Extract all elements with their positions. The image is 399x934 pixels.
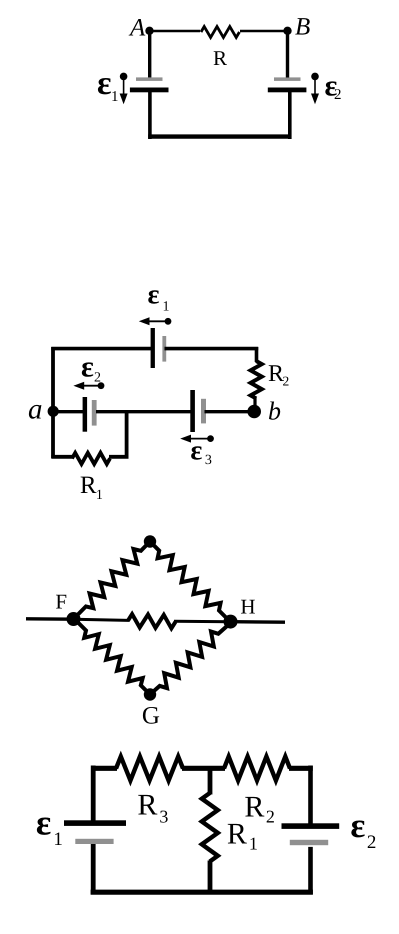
- top wire left corner to R3: [93, 766, 117, 771]
- svg-text:A: A: [128, 15, 146, 42]
- resistor R: [201, 27, 239, 38]
- battery E1 gray plate: [162, 336, 166, 362]
- label B: [295, 14, 310, 41]
- node G: [144, 688, 156, 700]
- wire mid resistor to H: [174, 620, 231, 623]
- current arrow 2 (down): [311, 79, 319, 104]
- label F: [55, 590, 67, 614]
- label epsilon2: [81, 351, 101, 386]
- svg-text:2: 2: [266, 807, 275, 827]
- label R: [213, 46, 227, 70]
- top wire right segment: [165, 347, 259, 351]
- wire resistor to B: [240, 30, 288, 33]
- battery E1 black plate: [130, 88, 169, 93]
- label epsilon2: [324, 70, 341, 104]
- resistor R1 vertical: [202, 793, 218, 862]
- svg-text:3: 3: [205, 453, 212, 468]
- battery E3 gray plate: [201, 399, 206, 424]
- middle junction stub: [208, 766, 213, 795]
- label a: [28, 394, 43, 426]
- left wire down: [51, 347, 55, 458]
- label epsilon1: [36, 803, 63, 851]
- node A: [145, 27, 153, 35]
- battery E2 gray plate: [290, 840, 328, 845]
- label R3: [137, 789, 168, 827]
- resistor R2: [224, 757, 290, 781]
- middle wire E3 to b: [205, 410, 255, 413]
- battery E2 black plate: [268, 88, 307, 93]
- top wire left segment: [51, 347, 152, 351]
- label R2: [244, 791, 275, 827]
- current arrow 2 (left): [73, 382, 104, 390]
- lower branch riser: [125, 411, 129, 459]
- battery E2 black plate: [282, 823, 340, 829]
- current arrow 3 (left): [180, 435, 214, 443]
- svg-text:1: 1: [162, 300, 169, 315]
- wire F to mid resistor: [74, 619, 130, 620]
- resistor R2: [251, 361, 262, 399]
- svg-text:F: F: [55, 590, 67, 614]
- current arrow 1 (left): [139, 317, 172, 325]
- middle wire E2 to E3: [96, 410, 192, 413]
- resistor mid FH: [128, 614, 176, 628]
- left wire corner down to E1: [91, 766, 96, 821]
- svg-text:1: 1: [249, 834, 258, 854]
- battery E3 black plate: [190, 390, 195, 432]
- resistor F-top: [74, 542, 150, 619]
- label R1: [227, 818, 258, 854]
- svg-text:ε: ε: [36, 803, 51, 843]
- wire bottom up to battery 2: [288, 92, 292, 139]
- label epsilon1: [147, 280, 169, 315]
- svg-text:1: 1: [53, 829, 63, 850]
- top wire R3 to R2: [182, 766, 225, 771]
- top wire R2 to right corner: [289, 766, 313, 771]
- wire left of F: [26, 617, 74, 621]
- svg-text:2: 2: [367, 832, 377, 853]
- svg-text:ε: ε: [350, 806, 365, 845]
- battery E1 gray plate: [136, 77, 163, 81]
- svg-text:b: b: [268, 397, 281, 426]
- wire top A to resistor: [150, 30, 201, 33]
- label b: [268, 397, 281, 426]
- svg-text:ε: ε: [97, 65, 112, 102]
- wire E2 down to bottom: [308, 847, 313, 894]
- svg-text:2: 2: [282, 374, 289, 389]
- label G: [142, 703, 160, 730]
- svg-text:R: R: [227, 818, 247, 851]
- node B: [283, 27, 291, 35]
- svg-text:1: 1: [111, 89, 119, 105]
- middle wire a to E2: [53, 410, 84, 413]
- svg-text:R: R: [137, 789, 157, 822]
- svg-text:ε: ε: [190, 436, 202, 467]
- label epsilon1: [97, 65, 119, 105]
- right wire corner down to E2: [308, 766, 313, 824]
- wire right of H: [231, 620, 285, 624]
- svg-text:ε: ε: [147, 280, 159, 311]
- svg-text:3: 3: [159, 807, 168, 827]
- wire R1 to bottom: [208, 861, 213, 894]
- node F: [67, 612, 81, 626]
- current arrow 1 (down): [120, 79, 128, 104]
- lower branch wire left: [51, 455, 73, 459]
- svg-text:2: 2: [334, 87, 342, 103]
- battery E2 gray plate: [274, 77, 301, 81]
- svg-text:ε: ε: [81, 351, 94, 384]
- battery E2 gray plate: [92, 400, 97, 426]
- label epsilon2: [350, 806, 376, 853]
- bottom wire: [91, 890, 313, 895]
- wire A down to battery 1: [148, 31, 151, 78]
- current dot 1: [120, 73, 128, 81]
- node b: [247, 405, 261, 419]
- battery E1 black plate: [151, 328, 155, 368]
- battery E1 gray plate: [75, 839, 113, 844]
- wire E1 down to bottom: [91, 844, 96, 894]
- wire right corner down to R2: [255, 347, 259, 362]
- wire R2 down to node b: [253, 398, 256, 411]
- resistor top-H: [150, 542, 231, 623]
- label R1: [80, 472, 103, 503]
- label A: [128, 15, 146, 42]
- svg-text:a: a: [28, 394, 43, 426]
- svg-text:R: R: [213, 46, 227, 70]
- label epsilon3: [190, 436, 212, 469]
- current dot 2: [311, 73, 319, 81]
- battery E1 black plate: [64, 820, 126, 826]
- svg-text:R: R: [244, 791, 264, 824]
- resistor F-G: [74, 619, 150, 695]
- bottom wire: [148, 134, 291, 138]
- lower branch wire right: [109, 455, 129, 459]
- resistor G-H: [150, 623, 231, 695]
- svg-text:G: G: [142, 703, 160, 730]
- svg-text:1: 1: [96, 488, 103, 503]
- node H: [224, 615, 238, 629]
- wire battery1 down to bottom: [148, 92, 152, 139]
- wire battery2 up to B: [286, 31, 289, 78]
- label H: [240, 595, 255, 619]
- node top: [144, 535, 156, 547]
- node a: [48, 406, 59, 417]
- label R2: [268, 361, 289, 389]
- resistor R3: [116, 757, 183, 781]
- svg-text:H: H: [240, 595, 255, 619]
- resistor R1: [72, 453, 110, 464]
- svg-text:R: R: [80, 472, 97, 499]
- svg-text:B: B: [295, 14, 310, 41]
- battery E2 black plate: [83, 397, 88, 432]
